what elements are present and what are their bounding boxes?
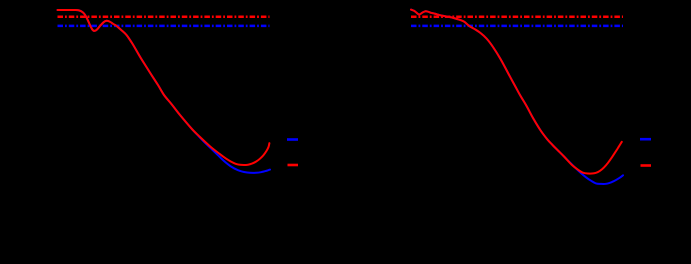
left plot: blue solid curve (58, 10, 271, 173)
left plot legend: red line handle (288, 164, 299, 167)
left plot legend: blue line handle (287, 138, 298, 141)
left plot: blue dash-dot reference line (58, 25, 270, 28)
right plot: red dash-dot reference line (411, 15, 623, 18)
left plot: red solid curve (58, 10, 270, 165)
left plot: red dash-dot reference line (58, 15, 270, 18)
right plot legend: red line handle (641, 164, 652, 167)
right plot: blue solid curve (411, 10, 623, 184)
right plot legend: blue line handle (640, 138, 651, 141)
right plot: blue dash-dot reference line (411, 25, 623, 28)
right plot: red solid curve (411, 10, 622, 174)
